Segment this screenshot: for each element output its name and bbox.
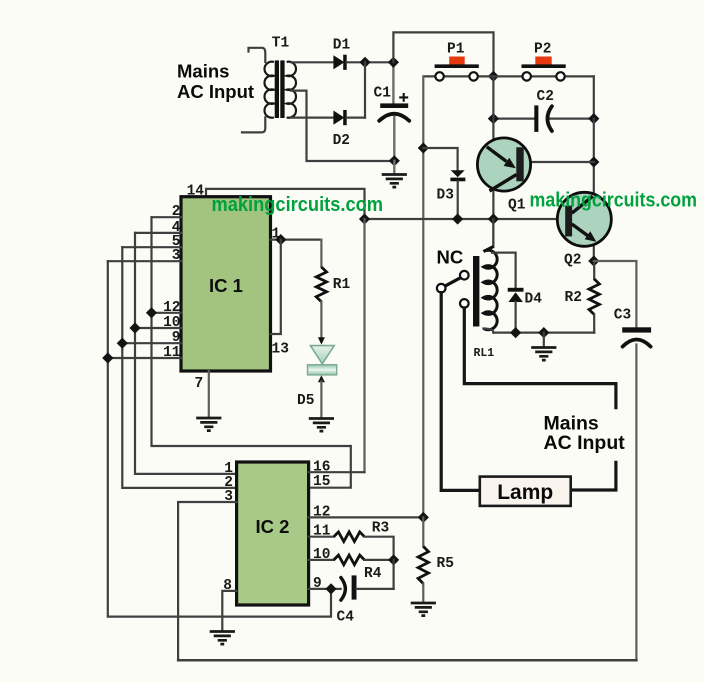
ground (R5) xyxy=(411,603,436,616)
wire IC1 pin7 to ground xyxy=(208,371,210,418)
svg-text:Lamp: Lamp xyxy=(497,481,553,504)
wire IC1 pin13 loop xyxy=(271,240,281,334)
LED D5 xyxy=(297,337,337,418)
IC U1 (IC 1) xyxy=(181,197,271,371)
wire D1 cathode to C1 node xyxy=(347,61,394,63)
diode D3 xyxy=(437,170,466,203)
wire P2 right down to C2 line xyxy=(593,76,595,118)
ground (relay) xyxy=(531,348,556,361)
node D4 bottom xyxy=(510,327,521,338)
wire relay bottom rail xyxy=(493,332,594,334)
wire IC2 pin 16 xyxy=(309,471,365,473)
svg-text:7: 7 xyxy=(195,376,204,392)
svg-text:10: 10 xyxy=(163,315,180,331)
svg-text:9: 9 xyxy=(313,576,322,592)
svg-text:RL1: RL1 xyxy=(474,347,495,360)
wire bus pin2/12 to IC2 pin15 xyxy=(152,217,351,488)
svg-text:IC 2: IC 2 xyxy=(256,516,290,537)
svg-text:13: 13 xyxy=(272,342,289,358)
svg-text:16: 16 xyxy=(313,459,330,475)
node coil top feed xyxy=(488,213,499,224)
wire IC2 pin 8 to ground xyxy=(222,591,236,631)
wire down to IC2 pin16 xyxy=(363,219,365,472)
node C1 top xyxy=(388,57,399,68)
node Q1 base junction xyxy=(588,156,599,167)
svg-text:R5: R5 xyxy=(437,556,454,572)
svg-text:Q2: Q2 xyxy=(564,253,581,269)
ground (IC2 pin8) xyxy=(210,632,235,645)
wire IC1 pin 2 xyxy=(152,216,182,218)
svg-text:AC Input: AC Input xyxy=(544,432,626,454)
svg-text:D4: D4 xyxy=(525,292,543,308)
svg-text:D5: D5 xyxy=(297,393,314,409)
wire coil top to D4 xyxy=(492,253,516,288)
svg-text:11: 11 xyxy=(313,524,331,540)
wire right rail down to Q2 xyxy=(593,119,595,261)
ground (IC1 pin7) xyxy=(196,418,221,431)
wire IC2 pin 3 xyxy=(178,502,237,660)
svg-text:R4: R4 xyxy=(364,566,382,582)
wire +V rail to pushbuttons xyxy=(393,32,493,76)
diode D4 xyxy=(508,288,543,308)
wire P1 node down to Q1 xyxy=(492,76,494,246)
node C1 bottom / ground xyxy=(389,155,400,166)
svg-text:R1: R1 xyxy=(333,277,351,293)
wire IC1 pin14 route xyxy=(206,189,365,219)
node R3/R4 junction xyxy=(388,554,399,565)
resistor R2 xyxy=(565,261,600,333)
wire base bus (IC1 pin14 / D3 / Q2 base) xyxy=(365,218,566,220)
svg-text:12: 12 xyxy=(313,504,330,520)
node D1/D2 junction xyxy=(359,57,370,68)
node D3 cathode junction xyxy=(452,213,463,224)
svg-text:D1: D1 xyxy=(333,38,351,54)
svg-text:R2: R2 xyxy=(565,290,582,306)
svg-text:14: 14 xyxy=(187,184,205,200)
wire NC contact to mains lead xyxy=(464,308,616,408)
svg-text:15: 15 xyxy=(313,474,330,490)
transistor Q2 xyxy=(557,192,611,268)
svg-text:P1: P1 xyxy=(447,42,465,58)
resistor R5 xyxy=(418,517,454,602)
svg-text:AC Input: AC Input xyxy=(177,81,254,102)
diode D2 xyxy=(333,110,350,149)
node pin9 / C4 xyxy=(325,583,336,594)
svg-text:Q1: Q1 xyxy=(508,198,526,214)
diode D1 xyxy=(333,38,351,70)
node C2 right xyxy=(588,113,599,124)
svg-text:Mains: Mains xyxy=(177,61,229,82)
svg-text:10: 10 xyxy=(313,547,330,563)
svg-text:11: 11 xyxy=(163,345,181,361)
node D3 feed xyxy=(418,142,429,153)
wire IC1 pin 12 xyxy=(152,312,182,314)
svg-text:C3: C3 xyxy=(614,308,631,324)
wire secondary bottom to D2 xyxy=(291,116,333,118)
wire secondary center tap to ground node xyxy=(291,91,389,161)
relay RL1 coil xyxy=(473,219,497,360)
wire bottom rail xyxy=(178,659,636,662)
wire IC1 pin 4 xyxy=(135,232,181,234)
ground (C1) xyxy=(382,175,407,188)
resistor R3 xyxy=(309,521,394,560)
capacitor C4 xyxy=(309,575,394,625)
svg-text:R3: R3 xyxy=(372,521,389,537)
svg-text:P2: P2 xyxy=(534,42,551,58)
wire IC1 pin 5 xyxy=(122,246,181,248)
capacitor C2 xyxy=(493,89,593,132)
svg-text:3: 3 xyxy=(172,248,181,264)
node IC1 pin1/pin13 junction xyxy=(275,234,286,245)
wire IC1 pin 10 xyxy=(135,327,181,329)
wire bus pin5/9 to IC2 pin2 xyxy=(122,247,236,488)
wire D2 cathode up to junction xyxy=(364,62,366,117)
svg-text:9: 9 xyxy=(172,330,181,346)
transformer T1 xyxy=(265,36,296,119)
transistor Q1 xyxy=(477,138,530,214)
wire primary top lead xyxy=(249,48,266,62)
capacitor C1 xyxy=(374,62,410,161)
IC U2 (IC 2) xyxy=(237,462,309,605)
svg-text:D3: D3 xyxy=(437,188,454,204)
wire Q2 emitter to C3 xyxy=(594,261,637,327)
wire bus pin3/11 to C4 node xyxy=(108,261,331,616)
node ground junction xyxy=(538,327,549,338)
wire IC1 pin 9 xyxy=(122,342,181,344)
node pin14/pin16 junction xyxy=(359,213,370,224)
ground (D5) xyxy=(309,419,334,432)
relay contact NC xyxy=(437,247,469,308)
wire IC1 pin 3 xyxy=(108,260,181,262)
svg-text:IC 1: IC 1 xyxy=(209,275,243,296)
svg-text:NC: NC xyxy=(437,247,464,268)
svg-text:C4: C4 xyxy=(337,610,355,626)
wire P1 left long vertical to R5 xyxy=(422,76,424,517)
wire to D3 xyxy=(423,148,457,170)
pushbutton P2 xyxy=(489,42,594,81)
svg-text:3: 3 xyxy=(224,489,233,505)
wire secondary top to D1 xyxy=(291,61,333,63)
svg-text:makingcircuits.com: makingcircuits.com xyxy=(530,190,698,212)
node Q2 emitter xyxy=(588,255,599,266)
pushbutton P1 xyxy=(424,42,490,81)
svg-text:C2: C2 xyxy=(537,89,554,105)
node P1 right junction xyxy=(488,71,499,82)
svg-text:D2: D2 xyxy=(333,133,350,149)
wire IC2 pin 12 xyxy=(309,516,424,518)
svg-text:12: 12 xyxy=(163,300,180,316)
resistor R1 xyxy=(316,240,350,339)
svg-text:8: 8 xyxy=(223,578,232,594)
lamp box xyxy=(480,477,571,506)
wire IC1 pin 11 xyxy=(108,357,181,359)
svg-text:2: 2 xyxy=(172,204,181,220)
svg-text:C1: C1 xyxy=(374,86,392,102)
wire primary bottom lead xyxy=(242,117,265,132)
wire IC1 pin1 to R1 xyxy=(271,239,322,241)
wire mains lead 2 to lamp xyxy=(571,462,616,490)
wire C3 to bottom rail xyxy=(635,345,637,661)
svg-text:T1: T1 xyxy=(272,36,290,52)
wire Q1 base xyxy=(524,161,594,163)
wire relay pole to lamp xyxy=(441,293,480,491)
svg-text:makingcircuits.com: makingcircuits.com xyxy=(212,194,384,216)
wire bus pin4/10 to IC2 pin1 xyxy=(135,233,237,474)
node C2 left xyxy=(488,113,499,124)
capacitor C3 xyxy=(614,308,651,347)
resistor R4 xyxy=(309,547,394,582)
